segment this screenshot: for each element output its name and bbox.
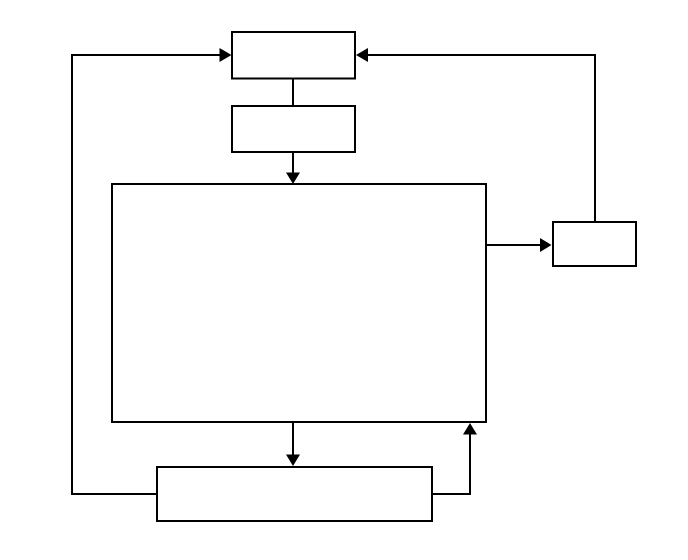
wire left-feedback (bottom block to top block) xyxy=(72,48,232,494)
block B3 large xyxy=(112,184,486,422)
wire large block to right block (arrow right) xyxy=(486,238,552,252)
wire top block to block2 xyxy=(292,79,294,107)
block B5 bottom xyxy=(157,467,432,521)
wire large block to bottom block (arrow down) xyxy=(286,422,300,466)
wire block2 to large block (arrow down) xyxy=(286,152,300,184)
block B4 right xyxy=(553,222,636,266)
block B1 top xyxy=(232,32,355,79)
wire right-feedback (right block to top block) xyxy=(356,48,595,222)
wire bottom block up to large block (arrow up) xyxy=(432,423,477,494)
block B2 xyxy=(232,106,355,152)
